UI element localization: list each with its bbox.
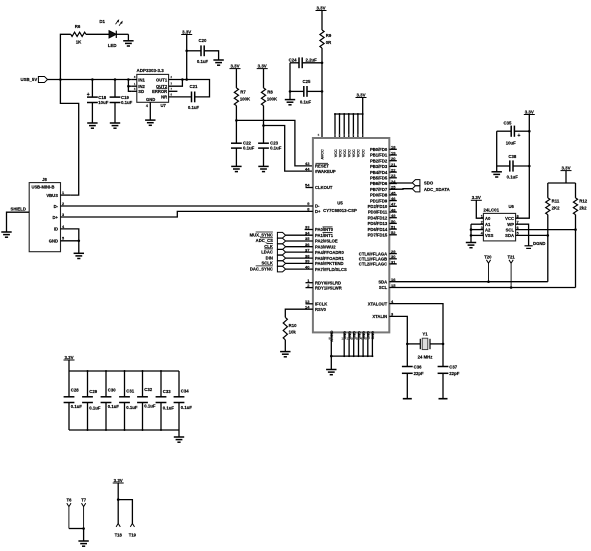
svg-text:PB2/FD2: PB2/FD2 bbox=[370, 158, 388, 163]
svg-text:XTALIN: XTALIN bbox=[372, 314, 387, 319]
capacitor C28 bbox=[64, 371, 83, 430]
svg-text:0.1uF: 0.1uF bbox=[144, 403, 156, 408]
svg-text:C30: C30 bbox=[108, 388, 116, 393]
svg-text:3.3V: 3.3V bbox=[230, 63, 239, 68]
svg-text:PB3/FD3: PB3/FD3 bbox=[370, 164, 388, 169]
wire cap bank bottom rail bbox=[69, 429, 179, 431]
wire SCL to R12 bbox=[516, 228, 577, 231]
bottom pin numbers bbox=[329, 337, 369, 341]
svg-text:A0: A0 bbox=[485, 216, 491, 221]
svg-text:+: + bbox=[87, 92, 90, 98]
svg-text:PA0/INT0: PA0/INT0 bbox=[315, 227, 334, 232]
svg-text:U7: U7 bbox=[161, 103, 167, 108]
svg-text:SCL: SCL bbox=[379, 285, 388, 290]
svg-text:3.3V: 3.3V bbox=[64, 355, 73, 360]
pin stub CLKOUT (54) bbox=[306, 187, 313, 189]
svg-text:0.1uF: 0.1uF bbox=[163, 406, 175, 411]
svg-text:SD: SD bbox=[138, 89, 144, 94]
svg-text:22pF: 22pF bbox=[414, 371, 424, 376]
svg-text:2: 2 bbox=[62, 202, 64, 206]
svg-text:CLK: CLK bbox=[264, 244, 273, 249]
svg-text:PD1/FD9: PD1/FD9 bbox=[370, 198, 388, 203]
IC right PB/PD pin names, numbers, stubs bbox=[368, 145, 397, 238]
wire C21 loop to output bbox=[187, 80, 210, 97]
svg-text:0.1uF: 0.1uF bbox=[243, 146, 255, 151]
svg-text:PD0/FD8: PD0/FD8 bbox=[370, 193, 388, 198]
svg-text:3.3V: 3.3V bbox=[525, 109, 534, 114]
ground (eeprom) bbox=[466, 243, 476, 248]
svg-text:C33: C33 bbox=[163, 389, 171, 394]
svg-text:PB1/FD1: PB1/FD1 bbox=[370, 153, 388, 158]
IC CTL pin names, numbers, stubs bbox=[359, 249, 397, 267]
ground (SHIELD) bbox=[1, 232, 11, 237]
svg-text:C20: C20 bbox=[199, 38, 207, 43]
svg-text:24 MHz: 24 MHz bbox=[418, 354, 433, 359]
pin stub RDY0 (1) bbox=[306, 282, 313, 284]
wire R8 to WAKEUP bbox=[262, 124, 313, 171]
svg-text:C28: C28 bbox=[71, 388, 79, 393]
svg-text:ID: ID bbox=[54, 227, 58, 232]
svg-text:0.1uF: 0.1uF bbox=[121, 100, 133, 105]
svg-text:PA4/FFOADR0: PA4/FFOADR0 bbox=[315, 250, 344, 255]
wire XTALIN bbox=[389, 316, 408, 345]
svg-text:R12: R12 bbox=[579, 199, 587, 204]
svg-text:U5: U5 bbox=[337, 201, 343, 206]
svg-text:0.1uF: 0.1uF bbox=[181, 405, 193, 410]
svg-text:0.1uF: 0.1uF bbox=[507, 175, 519, 180]
svg-text:0.1uF: 0.1uF bbox=[300, 100, 312, 105]
pin VBUS wire bbox=[61, 194, 71, 196]
pin stub PA0 (33) bbox=[305, 229, 313, 231]
svg-text:C38: C38 bbox=[508, 154, 516, 159]
ground (C35/C38) bbox=[492, 172, 502, 177]
svg-text:CTL2/#FLAGC: CTL2/#FLAGC bbox=[359, 262, 387, 267]
pin GND U7 + ground bbox=[145, 102, 155, 125]
svg-text:USB_5V: USB_5V bbox=[20, 77, 37, 82]
svg-text:C24: C24 bbox=[289, 58, 297, 63]
svg-text:10k: 10k bbox=[289, 330, 297, 335]
svg-text:C35: C35 bbox=[504, 120, 512, 125]
ground (AGND) bbox=[326, 370, 336, 375]
svg-text:1: 1 bbox=[62, 191, 64, 195]
test point T19 bbox=[129, 524, 137, 538]
power flag 3.3V (A0) bbox=[471, 195, 484, 218]
svg-text:1K: 1K bbox=[76, 40, 82, 45]
eeprom pin numbers bbox=[481, 215, 519, 236]
svg-text:R9: R9 bbox=[326, 33, 332, 38]
svg-text:T6: T6 bbox=[67, 498, 73, 503]
pin stub ERROR bbox=[169, 87, 178, 92]
svg-text:2K2: 2K2 bbox=[552, 205, 560, 210]
wire RSV0 to R10 bbox=[285, 309, 313, 317]
svg-text:ADC_CS: ADC_CS bbox=[256, 238, 273, 243]
wire T6/T7 join bbox=[69, 527, 85, 530]
wire pullup bus bbox=[548, 182, 576, 184]
svg-text:T21: T21 bbox=[507, 255, 515, 260]
svg-text:3.3V: 3.3V bbox=[114, 478, 123, 483]
svg-text:SCLK: SCLK bbox=[261, 261, 272, 266]
svg-text:PA6/#PKTEND: PA6/#PKTEND bbox=[315, 261, 344, 266]
wire R9 to AVCC pin bbox=[321, 63, 323, 138]
svg-text:PA5/FFOADR1: PA5/FFOADR1 bbox=[315, 256, 344, 261]
capacitor C34 bbox=[174, 371, 193, 430]
ground bar (C37) bbox=[439, 373, 448, 398]
svg-text:PD7/FD15: PD7/FD15 bbox=[368, 233, 388, 238]
ground (LED) bbox=[123, 34, 133, 46]
svg-text:SDO: SDO bbox=[424, 181, 434, 186]
svg-text:C21: C21 bbox=[190, 84, 198, 89]
svg-text:D1: D1 bbox=[99, 19, 105, 24]
wire C24-C25 left bbox=[289, 63, 292, 93]
svg-text:PD2/FD10: PD2/FD10 bbox=[368, 204, 388, 209]
ground (R10) bbox=[280, 340, 290, 357]
ground (C20) bbox=[204, 51, 224, 65]
svg-text:PA1/INT1: PA1/INT1 bbox=[315, 233, 334, 238]
svg-text:0.1uF: 0.1uF bbox=[126, 405, 138, 410]
wire D+ bbox=[61, 211, 313, 217]
svg-text:0.1uF: 0.1uF bbox=[188, 105, 200, 110]
power flag 3.3V (regulator out) bbox=[181, 29, 192, 79]
svg-text:C36: C36 bbox=[414, 364, 422, 369]
svg-text:DGND: DGND bbox=[533, 241, 545, 246]
wire D1 to ground bbox=[116, 33, 128, 35]
svg-text:RDY1/#SLWR: RDY1/#SLWR bbox=[315, 285, 342, 290]
ground (USB GND) bbox=[74, 241, 84, 259]
svg-text:PB7/FD7: PB7/FD7 bbox=[370, 187, 388, 192]
svg-text:CLKOUT: CLKOUT bbox=[315, 185, 333, 190]
svg-text:J8: J8 bbox=[42, 177, 47, 182]
wire WP to DGND bbox=[516, 224, 529, 246]
capacitor C29 bbox=[82, 371, 101, 430]
svg-text:VBUS: VBUS bbox=[46, 193, 58, 198]
svg-text:R6: R6 bbox=[75, 24, 81, 29]
resistor R6 bbox=[71, 24, 86, 45]
svg-text:GND: GND bbox=[49, 239, 58, 244]
power flag 3.3V (T18/T19) bbox=[113, 478, 124, 501]
test point T6 bbox=[67, 498, 73, 529]
svg-text:VCC: VCC bbox=[334, 149, 338, 157]
svg-text:LDAC: LDAC bbox=[261, 249, 273, 254]
wire input tie IN1/IN2/SD bbox=[127, 80, 132, 92]
ground (C18) bbox=[87, 103, 97, 129]
svg-text:AVCC: AVCC bbox=[321, 149, 325, 160]
wire R6 to D1 bbox=[86, 33, 109, 35]
svg-text:VSS: VSS bbox=[485, 233, 494, 238]
svg-text:ADP3303-3.3: ADP3303-3.3 bbox=[137, 68, 165, 73]
svg-text:DIN: DIN bbox=[266, 255, 273, 260]
svg-text:D+: D+ bbox=[53, 215, 59, 220]
capacitor C24 bbox=[289, 57, 324, 68]
resistor R7 bbox=[234, 69, 251, 121]
svg-text:3: 3 bbox=[62, 213, 64, 217]
test point T18 bbox=[115, 524, 123, 538]
test point T20 bbox=[484, 255, 492, 282]
svg-text:3.3V: 3.3V bbox=[561, 165, 570, 170]
capacitor C31 bbox=[119, 371, 138, 430]
svg-text:PA3/#WU2: PA3/#WU2 bbox=[315, 244, 336, 249]
svg-text:T19: T19 bbox=[129, 532, 137, 537]
svg-text:44: 44 bbox=[305, 166, 310, 171]
test point T21 bbox=[507, 255, 515, 288]
capacitor C33 bbox=[156, 371, 175, 430]
power flag 3.3V (cap bank) bbox=[64, 355, 75, 371]
VCC pin numbers bbox=[334, 133, 364, 137]
svg-text:R10: R10 bbox=[289, 323, 297, 328]
power flag 3.3V (C35) bbox=[524, 109, 535, 114]
svg-text:PD6/FD14: PD6/FD14 bbox=[368, 227, 388, 232]
eeprom U6 24LC01 body bbox=[483, 204, 515, 241]
ground (C23) bbox=[258, 148, 268, 172]
capacitor C20 bbox=[187, 38, 209, 64]
resistor R8 bbox=[261, 69, 278, 126]
svg-text:ADC_SDATA: ADC_SDATA bbox=[424, 187, 450, 192]
wire A1/A2/VSS tie bbox=[470, 224, 484, 242]
resistor R10 bbox=[283, 317, 297, 339]
wire R7 to RESET bbox=[235, 119, 313, 166]
svg-text:2k2: 2k2 bbox=[579, 205, 587, 210]
crystal Y1 bbox=[407, 332, 443, 360]
ground DGND bbox=[525, 241, 546, 249]
svg-text:#WAKEUP: #WAKEUP bbox=[315, 169, 336, 174]
svg-text:MUX_SYNC: MUX_SYNC bbox=[250, 232, 273, 237]
power flag 3.3V (R7) bbox=[230, 63, 241, 68]
IC left pin names and numbers bbox=[305, 161, 347, 312]
net tags MUX_SYNC/ADC_CS/CLK/LDAC/DIN/SCLK/DAC_SYNC bbox=[250, 232, 313, 272]
net tag ADC_SDATA bbox=[389, 186, 449, 192]
ground (C22) bbox=[231, 148, 241, 172]
svg-text:DAC_SYNC: DAC_SYNC bbox=[250, 266, 273, 271]
connector pin numbers bbox=[62, 191, 65, 241]
svg-text:T7: T7 bbox=[81, 498, 87, 503]
svg-text:C29: C29 bbox=[89, 389, 97, 394]
svg-text:PD4/FD12: PD4/FD12 bbox=[368, 215, 388, 220]
test point T7 bbox=[81, 498, 87, 529]
net tag SDO bbox=[389, 180, 434, 186]
power flag 3.3V (R9) bbox=[316, 5, 327, 10]
wire SDA to R11 bbox=[516, 234, 550, 237]
svg-text:PB5/FD5: PB5/FD5 bbox=[370, 176, 388, 181]
net tag USB_5V bbox=[20, 76, 47, 82]
wire OUT2 tie bbox=[169, 80, 183, 87]
svg-text:10uF: 10uF bbox=[506, 141, 516, 146]
svg-text:R8: R8 bbox=[267, 90, 273, 95]
svg-text:3.3V: 3.3V bbox=[182, 29, 191, 34]
ground (C25) bbox=[285, 91, 295, 104]
svg-text:VCC: VCC bbox=[348, 149, 352, 157]
svg-text:PB4/FD4: PB4/FD4 bbox=[370, 170, 388, 175]
svg-text:22pF: 22pF bbox=[449, 371, 459, 376]
svg-text:3.3V: 3.3V bbox=[356, 92, 365, 97]
wire C35/C38 left leg bbox=[496, 131, 498, 172]
capacitor C25 bbox=[290, 79, 323, 105]
svg-text:VCC: VCC bbox=[362, 149, 366, 157]
wire AGND/GND bus bbox=[330, 332, 373, 369]
pin stub SD bbox=[132, 87, 137, 91]
power flag 3.3V (R11/R12) bbox=[561, 165, 572, 183]
svg-text:PB0/FD0: PB0/FD0 bbox=[370, 147, 388, 152]
svg-text:C31: C31 bbox=[126, 389, 134, 394]
regulator U7 ADP3303-3.3 body bbox=[137, 68, 169, 108]
svg-text:R11: R11 bbox=[552, 199, 560, 204]
svg-text:3.3V: 3.3V bbox=[316, 5, 325, 10]
svg-text:R7: R7 bbox=[240, 90, 246, 95]
resistor R11 bbox=[546, 183, 560, 282]
wire T18/T19 feed bbox=[118, 500, 132, 524]
svg-text:T20: T20 bbox=[484, 255, 492, 260]
wire XTALOUT bbox=[389, 304, 444, 346]
capacitor C19 bbox=[110, 80, 133, 105]
svg-text:2.2uF: 2.2uF bbox=[306, 58, 318, 63]
pin stub IN2 bbox=[132, 82, 137, 86]
svg-text:3.3V: 3.3V bbox=[258, 63, 267, 68]
IC SDA/SCL/XTAL pin names bbox=[368, 277, 396, 319]
svg-text:4: 4 bbox=[146, 104, 148, 108]
svg-text:SHIELD: SHIELD bbox=[11, 207, 26, 212]
capacitor C30 bbox=[101, 371, 120, 430]
pin stub IFCLK (13) bbox=[306, 303, 313, 305]
LED D1 bbox=[99, 19, 122, 48]
wire VCC up bbox=[516, 115, 531, 219]
capacitor C21 bbox=[188, 84, 200, 110]
svg-text:0.1uF: 0.1uF bbox=[108, 404, 120, 409]
svg-text:PB6/FD6: PB6/FD6 bbox=[370, 181, 388, 186]
svg-text:C37: C37 bbox=[449, 364, 457, 369]
svg-text:PD5/FD13: PD5/FD13 bbox=[368, 221, 388, 226]
ground (T6/T7) bbox=[78, 529, 88, 547]
svg-text:WP: WP bbox=[507, 222, 514, 227]
svg-text:24LC01: 24LC01 bbox=[483, 207, 499, 212]
svg-text:ERROR: ERROR bbox=[152, 89, 167, 94]
svg-text:SDA: SDA bbox=[505, 233, 514, 238]
svg-text:5: 5 bbox=[62, 237, 64, 241]
wire USB_5V main rail bbox=[48, 78, 132, 81]
power flag 3.3V (R8) bbox=[257, 63, 268, 68]
svg-text:0.1uF: 0.1uF bbox=[89, 406, 101, 411]
svg-text:0R: 0R bbox=[326, 40, 332, 45]
wire ID to GND bbox=[61, 229, 79, 241]
pin stub IN1 bbox=[132, 75, 137, 79]
wire GND pin bbox=[61, 240, 81, 243]
ground bar (C36) bbox=[403, 373, 412, 398]
svg-text:Y1: Y1 bbox=[422, 332, 428, 337]
capacitor C36 bbox=[402, 344, 424, 376]
svg-text:GND: GND bbox=[146, 97, 155, 102]
svg-text:D-: D- bbox=[315, 204, 320, 209]
svg-text:10uF: 10uF bbox=[98, 100, 108, 105]
svg-text:100K: 100K bbox=[267, 96, 278, 101]
svg-text:SDA: SDA bbox=[378, 279, 387, 284]
svg-text:0.1uF: 0.1uF bbox=[270, 146, 282, 151]
svg-text:A1: A1 bbox=[485, 222, 491, 227]
svg-text:CY7C68013-CSP: CY7C68013-CSP bbox=[323, 208, 357, 213]
svg-text:D-: D- bbox=[54, 204, 59, 209]
capacitor C18 bbox=[87, 80, 109, 105]
capacitor C35 bbox=[497, 120, 530, 145]
svg-text:XTALOUT: XTALOUT bbox=[368, 301, 388, 306]
wire SDA rail bbox=[389, 280, 548, 283]
svg-text:C34: C34 bbox=[181, 389, 189, 394]
capacitor C23 bbox=[258, 126, 282, 151]
resistor R9 bbox=[320, 11, 332, 63]
svg-text:U6: U6 bbox=[509, 204, 515, 209]
svg-text:VCC: VCC bbox=[352, 149, 356, 157]
svg-text:VCC: VCC bbox=[357, 149, 361, 157]
capacitor C38 bbox=[497, 154, 530, 179]
svg-text:LED: LED bbox=[108, 43, 117, 48]
svg-text:RSV0: RSV0 bbox=[315, 307, 327, 312]
svg-text:PA7/#FLD/SLCS: PA7/#FLD/SLCS bbox=[315, 267, 347, 272]
capacitor C22 bbox=[231, 120, 255, 150]
svg-text:OUT1: OUT1 bbox=[156, 78, 168, 83]
svg-text:IN1: IN1 bbox=[138, 78, 145, 83]
svg-text:A2: A2 bbox=[485, 227, 491, 232]
svg-text:IFCLK: IFCLK bbox=[315, 302, 327, 307]
IC power pin names bbox=[318, 133, 375, 342]
svg-text:T18: T18 bbox=[115, 532, 123, 537]
wire VBUS riser bbox=[60, 80, 78, 196]
svg-text:SCL: SCL bbox=[506, 227, 515, 232]
wire cap bank top rail bbox=[69, 370, 179, 372]
wire SCL rail bbox=[389, 286, 575, 289]
svg-text:VCC: VCC bbox=[338, 149, 342, 157]
svg-text:VCC: VCC bbox=[505, 216, 514, 221]
ground (C19) bbox=[110, 103, 120, 129]
svg-text:3.3V: 3.3V bbox=[472, 195, 481, 200]
svg-text:PD3/FD11: PD3/FD11 bbox=[368, 210, 388, 215]
ground (cap bank) bbox=[174, 430, 184, 442]
pin stub RDY1 (2) bbox=[306, 287, 313, 289]
svg-text:C25: C25 bbox=[303, 79, 311, 84]
svg-text:0.1uF: 0.1uF bbox=[197, 59, 209, 64]
svg-text:PA2/#SLOE: PA2/#SLOE bbox=[315, 239, 338, 244]
svg-text:D+: D+ bbox=[315, 209, 321, 214]
power rail 3.3V to VCC pins bbox=[334, 92, 367, 138]
resistor R12 bbox=[573, 183, 587, 288]
svg-text:NR: NR bbox=[161, 95, 167, 100]
svg-text:USB-MINI-B: USB-MINI-B bbox=[32, 185, 55, 190]
svg-text:+: + bbox=[517, 133, 520, 139]
svg-text:0.1uF: 0.1uF bbox=[71, 404, 83, 409]
wire SHIELD bbox=[7, 207, 30, 232]
capacitor C37 bbox=[438, 344, 460, 376]
connector J8 USB-MINI-B body bbox=[29, 177, 60, 252]
wire to R6 bbox=[60, 34, 70, 79]
svg-text:100K: 100K bbox=[240, 96, 251, 101]
wire D- bbox=[61, 205, 313, 207]
svg-text:VCC: VCC bbox=[343, 149, 347, 157]
wire NR to C21 bbox=[169, 92, 192, 97]
wire OUT1 bbox=[169, 75, 188, 81]
microcontroller U5 CY7C68013-CSP body bbox=[313, 138, 389, 332]
capacitor C32 bbox=[137, 371, 156, 430]
svg-text:C32: C32 bbox=[144, 387, 152, 392]
